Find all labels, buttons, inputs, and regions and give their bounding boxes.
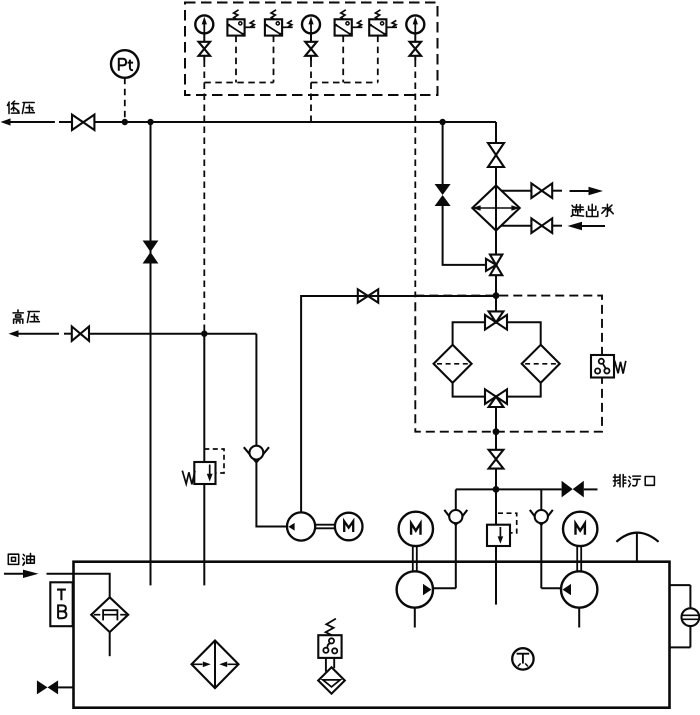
suction pipe of P1 [414,608,416,628]
sensing wire Pt [124,78,126,122]
motor M of P2 [563,512,597,546]
duplex filter dashed enclosure [415,296,602,432]
pump P2 [561,571,597,607]
check valve on suction branch [244,446,269,463]
wire check valve to pump P2 [541,587,561,589]
cooler inlet shutoff valve [488,143,504,167]
left filter [434,345,472,383]
high pressure outlet arrow [9,330,73,337]
label 进出水 (water in/out) [571,204,613,216]
shutoff valve on circulation line [358,289,378,302]
system relief valve [487,525,510,546]
differential pressure switch [591,355,626,378]
signal bus 2 [311,82,378,84]
return pipe to filter [47,574,110,598]
check valve above pump P2 [530,489,553,588]
return filter with magnet [91,597,128,632]
high pressure main line [89,333,256,335]
water outlet valve [531,183,562,198]
wire from check valve to circulation pump [256,462,287,526]
pilot line of relief valve W [204,449,224,473]
suction pipe of P2 [578,608,580,628]
wire outlet node to needle valve [495,432,497,450]
sensing line from PG1 to high pressure node [203,61,205,334]
wire to right filter [507,322,541,345]
water inlet valve [531,218,562,233]
right filter [522,345,560,383]
closed tank drain valve [37,680,74,694]
shutoff valve on low pressure line [59,115,94,130]
bypass wire from node down [442,122,444,184]
shaft between circulation pump and motor [315,525,335,529]
temperature sensor Pt [111,50,139,78]
wire check valve to pump P1 [433,587,456,589]
label 低压 (low pressure) [7,101,34,113]
circulation pump [287,512,315,540]
node: drain header junction [493,486,500,493]
cooler (heat exchanger) [472,186,519,231]
changeover three-way valve bottom [485,389,507,407]
tank breather [616,533,658,561]
pressure gauge PG1 [195,15,213,33]
sensing line from PG2 to low pressure line [310,61,312,123]
changeover three-way valve top [485,311,507,329]
gauge isolation valve under PG3 [410,33,422,60]
blowdown outlet wire [584,488,598,490]
gauge isolation valve under PG2 [305,33,317,60]
return oil inlet arrow [4,570,39,578]
node: tank return junction [147,119,153,125]
pressure gauge PG2 [302,15,320,33]
wire header node to relief valve [495,489,497,524]
circulation motor M [335,513,363,541]
node: cooler branch junction [439,119,445,125]
wire needle valve to header node [495,469,497,490]
pressure switch PS4 [369,10,397,36]
wire to left filter [453,322,485,345]
check valve above pump P1 [444,489,467,588]
signal wire PS1 drop [235,36,237,83]
pressure gauge PG3 [406,15,424,33]
pump P1 [397,571,433,607]
closed bypass valve [435,184,451,206]
low pressure main line [94,121,496,123]
node: filter circuit inlet [493,292,500,299]
signal bus 1 [204,82,273,84]
sensing line from PG3 down to filter enclosure [414,61,416,296]
instrument panel dashed enclosure [185,3,438,96]
node: filter circuit outlet [493,428,500,435]
wire to filter circuit node [495,275,497,295]
label 排污口 (blowdown port) [613,475,654,487]
shutoff valve on high pressure line [72,327,89,341]
pressure switch PS2 [265,10,293,36]
suction branch from high pressure line [255,334,257,447]
shaft of P2 [577,546,581,571]
liquid level switch [318,619,345,694]
node: PG1 junction [201,331,207,337]
pressure switch PS3 [335,10,363,36]
signal wire PS3 drop [342,36,344,83]
gauge isolation valve under PG1 [199,33,211,60]
tank heater [192,641,239,689]
pressure switch PS1 [227,10,255,36]
wire node to changeover valve [495,296,497,312]
oil tank [74,562,670,708]
motor M of P1 [399,512,433,546]
wire to outlet node [495,407,497,432]
relief drain wire into tank [495,546,497,605]
cooling water outlet wire [501,190,531,192]
wire through cooler [495,167,497,255]
water outlet arrow [570,187,604,196]
wire from high pressure node down to relief valve W [203,334,205,462]
signal wire PS4 drop [377,36,379,83]
return line to tank [150,122,152,585]
pilot line of system relief valve [498,513,517,533]
circulation line to filter node [301,296,496,513]
label 回油 (return oil) [8,553,34,565]
cooling water inlet wire [501,225,531,227]
cooler inlet wire [495,122,497,143]
drain header line [456,488,562,490]
drain wire from relief valve W into tank [203,484,205,585]
low pressure outlet arrow [1,118,55,125]
water inlet arrow [568,222,606,231]
bypass wire to three-way valve [443,206,486,265]
wire right filter to bottom valve [507,383,541,397]
signal wire PS2 drop [273,36,275,83]
wire left filter to bottom valve [453,383,485,397]
label 高压 (high pressure) [13,310,39,323]
return filter outlet pipe [109,632,111,656]
shaft of P1 [413,546,417,571]
oil level sight gauge [670,585,700,647]
node: Pt junction [122,119,128,125]
thermometer T [512,648,533,669]
closed blowdown valve [562,481,584,498]
relief valve W [182,462,215,484]
level gauge TB [50,582,72,626]
needle valve above drain header [489,450,504,469]
closed shutoff valve on return line [143,241,159,264]
three-way valve at cooler outlet [486,255,502,276]
